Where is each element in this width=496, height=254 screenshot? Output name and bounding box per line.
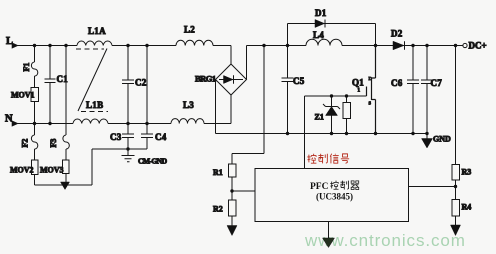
wire R3-R4 junction xyxy=(409,180,456,200)
varistor MOV3 xyxy=(63,160,70,174)
svg-text:MOV1: MOV1 xyxy=(11,91,35,100)
svg-text:S: S xyxy=(369,101,372,106)
resistor R1 xyxy=(229,164,237,177)
svg-text:D1: D1 xyxy=(315,8,327,18)
capacitor C5 xyxy=(282,46,294,134)
svg-text:L: L xyxy=(6,36,13,47)
terminal DC+ xyxy=(463,43,467,47)
varistor MOV1 xyxy=(31,88,39,102)
inductor L2 xyxy=(176,40,213,45)
capacitor C4 xyxy=(141,46,153,150)
ground arrow below box xyxy=(328,222,330,239)
capacitor C6 xyxy=(407,46,419,134)
ground arrow below R2 xyxy=(231,216,233,226)
svg-text:(UC3845): (UC3845) xyxy=(316,192,353,202)
svg-text:CM-GND: CM-GND xyxy=(138,157,168,166)
wire gate line xyxy=(305,96,367,169)
svg-text:C5: C5 xyxy=(293,76,305,86)
zener Z1 xyxy=(323,96,340,109)
fuse F3 xyxy=(63,46,69,161)
core dashes top xyxy=(76,48,104,50)
wire R3 sense from DC+ xyxy=(455,46,457,165)
svg-text:C6: C6 xyxy=(391,78,403,88)
inductor L1A xyxy=(77,41,112,45)
svg-text:R3: R3 xyxy=(462,168,472,177)
label control-signal (red CJK) xyxy=(307,154,349,164)
svg-text:R1: R1 xyxy=(213,168,223,177)
svg-text:L3: L3 xyxy=(183,100,194,110)
transformer diagonal xyxy=(78,49,107,112)
svg-text:Q1: Q1 xyxy=(352,78,364,88)
svg-text:PFC: PFC xyxy=(310,182,329,192)
svg-text:DC+: DC+ xyxy=(469,41,487,51)
capacitor C1 xyxy=(45,46,56,124)
svg-text:GND: GND xyxy=(433,135,451,144)
wire DC+ rail xyxy=(247,46,464,80)
wire sense divider drop xyxy=(232,46,264,165)
capacitor C2 xyxy=(122,46,134,124)
svg-text:C2: C2 xyxy=(135,78,147,88)
svg-text:L4: L4 xyxy=(313,30,324,40)
svg-text:C1: C1 xyxy=(57,74,69,84)
svg-text:Z1: Z1 xyxy=(315,113,324,122)
resistor R2 xyxy=(229,200,237,216)
svg-text:1: 1 xyxy=(358,89,361,94)
varistor MOV2 xyxy=(32,160,39,175)
svg-text:L1B: L1B xyxy=(86,100,103,110)
wire L input rail xyxy=(17,46,231,65)
ground CM-GND xyxy=(122,149,135,162)
ground arrow below R4 xyxy=(455,216,457,226)
svg-text:N: N xyxy=(5,114,13,125)
svg-text:R2: R2 xyxy=(213,205,223,214)
wire N input rail xyxy=(17,95,231,124)
svg-text:D2: D2 xyxy=(391,29,403,39)
svg-text:MOV2: MOV2 xyxy=(10,166,34,175)
inductor L3 xyxy=(171,119,204,124)
svg-text:C3: C3 xyxy=(110,132,122,142)
svg-text:C7: C7 xyxy=(431,78,443,88)
svg-text:F1: F1 xyxy=(22,63,31,72)
diode D2 xyxy=(393,41,404,50)
inductor L4 xyxy=(306,39,342,45)
svg-text:C4: C4 xyxy=(155,132,167,142)
svg-text:R4: R4 xyxy=(462,203,472,212)
fuse F2 xyxy=(31,124,37,161)
PFC controller box U1 xyxy=(255,169,409,222)
wire bottom bus xyxy=(216,133,428,135)
ground GND arrow xyxy=(426,134,428,140)
diode D1 bypass xyxy=(288,24,376,46)
chassis arrow at MOV3 xyxy=(61,182,70,190)
wire R1-R2 xyxy=(232,177,255,200)
inductor L1B xyxy=(73,119,108,123)
wire MOV bottom bus xyxy=(35,149,148,185)
terminal arrow N xyxy=(12,121,18,126)
transistor Q1 MOSFET xyxy=(367,46,376,134)
svg-text:MOV3: MOV3 xyxy=(40,166,64,175)
svg-text:L2: L2 xyxy=(184,25,195,35)
capacitor C3 xyxy=(122,124,134,150)
resistor gate xyxy=(343,103,351,119)
svg-text:F3: F3 xyxy=(49,139,58,148)
bridge BRG1 xyxy=(216,64,247,95)
svg-text:BRG1: BRG1 xyxy=(195,74,216,84)
core dashes bottom xyxy=(81,111,108,113)
wire bridge left to bottom bus xyxy=(215,80,217,134)
svg-text:L1A: L1A xyxy=(88,26,106,36)
terminal arrow L xyxy=(12,43,18,48)
capacitor C7 xyxy=(421,46,433,134)
svg-text:F2: F2 xyxy=(21,139,30,148)
fuse F1 xyxy=(31,46,37,88)
resistor R3 xyxy=(452,165,460,181)
resistor R4 xyxy=(452,200,460,217)
